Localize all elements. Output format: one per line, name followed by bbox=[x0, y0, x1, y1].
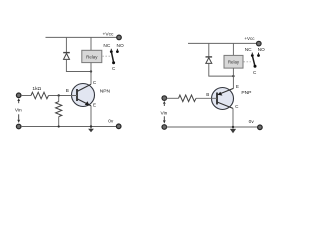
node +Vcc terminal left bbox=[117, 35, 122, 40]
wire junction to pulldown resistor bbox=[58, 96, 60, 102]
node 0v terminal right bbox=[258, 125, 263, 130]
transistor Q1 collector stroke bbox=[77, 84, 91, 91]
transistor Q2 PNP circle bbox=[212, 88, 234, 110]
contact NO dot left bbox=[116, 50, 119, 53]
svg-text:1kΩ: 1kΩ bbox=[32, 86, 41, 92]
wire top supply rail right circuit bbox=[188, 42, 257, 44]
transistor Q2 base bar bbox=[216, 93, 218, 105]
node input terminal bottom left bbox=[16, 124, 21, 129]
contact NO stub right bbox=[258, 53, 260, 55]
svg-text:E: E bbox=[236, 84, 239, 89]
contact NC stub left bbox=[110, 49, 112, 51]
contact NO dot right bbox=[257, 54, 260, 57]
wire collector up to junction left bbox=[90, 72, 92, 85]
svg-text:B: B bbox=[66, 88, 69, 93]
svg-text:NO: NO bbox=[258, 47, 265, 53]
svg-text:+Vcc: +Vcc bbox=[244, 36, 255, 41]
svg-text:NPN: NPN bbox=[100, 89, 111, 95]
relay coil box left bbox=[82, 50, 102, 62]
wire relay branch top right bbox=[232, 43, 234, 55]
node junction pulldown/rail left bbox=[58, 125, 60, 127]
linkage dashes relay-to-arm right bbox=[243, 61, 250, 63]
wire input to resistor right bbox=[167, 97, 179, 99]
Vin arrow down (right) bbox=[163, 116, 165, 120]
svg-text:0v: 0v bbox=[108, 119, 114, 125]
wire pulldown to ground rail bbox=[58, 117, 60, 127]
transistor Q1 emitter arrow (NPN outward) bbox=[85, 101, 90, 105]
svg-text:Vin: Vin bbox=[15, 108, 22, 114]
svg-text:Relay: Relay bbox=[86, 54, 98, 59]
wire relay branch top left bbox=[90, 37, 92, 50]
wire diode branch top right bbox=[208, 43, 210, 56]
diode D2 (flyback, right) bbox=[206, 57, 213, 64]
svg-text:PNP: PNP bbox=[241, 90, 251, 96]
transistor Q1 emitter stroke bbox=[77, 99, 91, 106]
wire emitter down to rail left bbox=[90, 106, 92, 129]
switch arm left bbox=[112, 52, 114, 62]
contact NC dot right bbox=[251, 54, 254, 57]
resistor R2 pulldown (vertical) bbox=[56, 102, 62, 117]
switch pivot dot right bbox=[254, 65, 257, 68]
contact NC stub right bbox=[251, 53, 253, 55]
node junction relay/diode/collector left bbox=[90, 70, 92, 72]
wire relay to junction right bbox=[232, 68, 234, 76]
resistor R1 1k (series base) bbox=[31, 92, 49, 99]
wire junction down to emitter right bbox=[232, 76, 234, 88]
svg-text:NC: NC bbox=[103, 43, 110, 49]
ground arrow right bbox=[230, 129, 236, 133]
wire bottom ground rail left circuit bbox=[21, 126, 117, 128]
wire collector down to rail right bbox=[232, 108, 234, 128]
svg-text:NC: NC bbox=[245, 47, 252, 53]
svg-text:B: B bbox=[206, 92, 209, 97]
wire relay to junction left bbox=[90, 63, 92, 72]
svg-text:NO: NO bbox=[116, 43, 123, 49]
transistor Q2 emitter stroke bbox=[217, 88, 233, 95]
node junction collector/rail right bbox=[232, 126, 234, 128]
Vin arrow down (left) bbox=[18, 114, 20, 120]
Vin arrow up (right) bbox=[163, 101, 166, 104]
resistor R3 (series base, right) bbox=[179, 95, 197, 102]
relay coil box right bbox=[224, 55, 243, 68]
node junction emitter/rail left bbox=[90, 125, 92, 127]
svg-text:0v: 0v bbox=[249, 119, 255, 125]
wire diode branch bottom left bbox=[66, 59, 91, 71]
switch pivot dot left bbox=[112, 61, 115, 64]
diode D1 (flyback, left) bbox=[63, 53, 70, 60]
svg-text:Vin: Vin bbox=[160, 111, 167, 117]
contact NO stub left bbox=[116, 49, 118, 51]
node input terminal top right bbox=[162, 96, 167, 101]
linkage dashes relay-to-arm left bbox=[102, 55, 110, 57]
wire diode branch bottom right bbox=[209, 63, 234, 76]
node input terminal bottom right bbox=[162, 125, 167, 130]
node junction base/pulldown left bbox=[58, 94, 60, 96]
node +Vcc terminal right bbox=[257, 41, 262, 46]
transistor Q1 base bar bbox=[76, 89, 78, 101]
wire top supply rail left circuit bbox=[46, 36, 117, 38]
node 0v terminal left bbox=[116, 124, 121, 129]
wire resistor to base left bbox=[49, 95, 78, 97]
svg-text:+Vcc: +Vcc bbox=[102, 31, 114, 37]
svg-text:Relay: Relay bbox=[228, 60, 240, 65]
wire resistor to base right bbox=[196, 97, 217, 99]
wire bottom ground rail right circuit bbox=[167, 126, 258, 128]
transistor Q2 collector stroke bbox=[217, 102, 233, 108]
transistor Q1 NPN circle bbox=[72, 84, 95, 107]
wire input to resistor left bbox=[21, 95, 31, 97]
contact NC dot left bbox=[110, 50, 113, 53]
Vin arrow up (left) bbox=[17, 98, 20, 101]
switch arm right bbox=[253, 56, 255, 66]
node input terminal top left bbox=[16, 93, 21, 98]
wire diode branch top left bbox=[65, 37, 67, 52]
ground arrow left bbox=[88, 129, 94, 133]
transistor Q2 emitter arrow (PNP inward) bbox=[218, 92, 223, 96]
node junction relay/diode/emitter right bbox=[232, 75, 234, 77]
svg-text:E: E bbox=[93, 102, 96, 107]
